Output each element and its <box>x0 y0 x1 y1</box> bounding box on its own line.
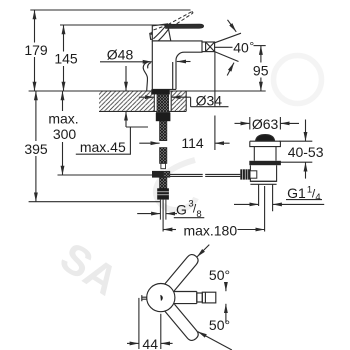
faucet centerline lower <box>162 200 164 232</box>
spout outlet <box>202 42 215 52</box>
plan spout neck <box>197 293 203 302</box>
44 extension lines <box>138 298 140 349</box>
drain tailpipe <box>259 184 273 211</box>
flow arrow in body <box>177 61 191 63</box>
spout axis line <box>215 46 233 48</box>
hose segment 1 <box>160 121 167 140</box>
threaded shank <box>157 94 169 112</box>
svg-text:4: 4 <box>315 192 320 203</box>
dimension max180 line <box>163 229 176 231</box>
G3/8 underline <box>174 217 205 219</box>
counter bottom line <box>99 110 186 112</box>
svg-text:Ø63: Ø63 <box>252 116 279 132</box>
plan view <box>142 255 216 341</box>
rod double line right <box>170 174 241 176</box>
svg-text:40: 40 <box>233 39 249 55</box>
counter hole right edge <box>170 91 172 111</box>
svg-text:300: 300 <box>53 126 77 142</box>
dimension 95 line <box>260 46 262 63</box>
drain knob stem <box>250 171 257 178</box>
counter hole left edge <box>153 91 155 111</box>
base gasket <box>151 89 170 94</box>
hose neck <box>161 163 166 168</box>
drain neck <box>254 147 276 161</box>
plan center mark <box>160 295 162 301</box>
drain locknut ring <box>249 161 281 165</box>
max45 label box <box>76 127 131 154</box>
plan lower handle arm <box>165 304 198 340</box>
watermark swirl <box>156 160 196 210</box>
svg-text:145: 145 <box>54 51 78 67</box>
svg-text:44: 44 <box>142 336 158 350</box>
svg-text:114: 114 <box>181 135 204 151</box>
40deg lower leader arrow <box>227 63 234 76</box>
svg-text:G: G <box>176 202 187 218</box>
svg-text:°: ° <box>249 39 254 53</box>
drain centerline <box>264 186 266 232</box>
Ø34 leader jog <box>191 97 229 107</box>
plan spout arm <box>174 292 197 304</box>
50deg upper spout arrow <box>225 284 227 291</box>
popup rod line left <box>58 174 153 176</box>
counter hatch left <box>99 92 154 111</box>
mounting nut <box>156 113 171 121</box>
svg-text:95: 95 <box>253 63 269 79</box>
spout tip extension line <box>214 52 216 107</box>
hose segment 2 <box>160 148 167 164</box>
G1 1/4 underline <box>286 199 322 201</box>
G3/8 connector nut <box>157 188 169 199</box>
drain knob <box>240 169 250 179</box>
svg-text:395: 395 <box>24 141 48 157</box>
handle base notch <box>150 33 153 40</box>
95 top tick <box>254 45 266 47</box>
reference line lever top (y=25) <box>60 24 167 26</box>
connector braid right <box>164 171 170 177</box>
dimension 395 line <box>35 91 37 141</box>
dimension 114 arrows <box>139 142 159 144</box>
50deg lower spout arrow <box>225 304 227 323</box>
Ø63 extension lines <box>249 117 251 130</box>
svg-text:179: 179 <box>24 42 48 58</box>
dimension G3/8 arrows <box>137 213 160 215</box>
svg-text:50°: 50° <box>209 267 230 283</box>
svg-text:8: 8 <box>196 209 201 220</box>
dimension G1 1/4 arrows <box>234 203 259 205</box>
hose segment 3 <box>160 178 167 189</box>
svg-text:max.45: max.45 <box>80 139 126 155</box>
counter top line <box>29 90 152 92</box>
drain body below ring <box>250 165 276 181</box>
plan upper handle arm <box>165 255 198 291</box>
plan knob <box>142 295 147 301</box>
svg-text:max.: max. <box>48 111 78 127</box>
spray lower ray <box>215 52 239 62</box>
drain flange <box>250 135 281 212</box>
dimension Ø63 arrows <box>235 122 250 124</box>
handle base <box>152 24 171 41</box>
watermark letters SA <box>52 233 127 304</box>
max45 leader <box>126 126 148 128</box>
svg-text:40-53: 40-53 <box>288 144 324 160</box>
svg-text:Ø34: Ø34 <box>196 92 223 108</box>
50deg lower leader <box>198 332 232 350</box>
dashed raised lever <box>151 12 193 36</box>
40-53 reference ticks <box>279 140 312 142</box>
body inner line <box>172 62 174 89</box>
dimension 44 <box>127 342 139 344</box>
reference line top (y=10) <box>30 9 190 11</box>
mounting washer line <box>156 111 170 113</box>
50deg upper leader <box>197 245 209 257</box>
svg-text:50°: 50° <box>209 317 230 333</box>
rod connector <box>152 171 164 178</box>
popup hook <box>143 62 147 91</box>
dimension Ø48 leader <box>100 61 152 63</box>
spray upper ray <box>215 33 241 43</box>
faucet body outline <box>152 41 202 90</box>
svg-text:max.180: max.180 <box>183 222 237 238</box>
drain body bottom double line <box>250 181 276 184</box>
drain dome cap <box>256 135 275 141</box>
svg-text:Ø48: Ø48 <box>107 46 134 62</box>
dimension 145 line <box>63 25 65 52</box>
dimension 179 line <box>34 10 36 43</box>
40deg upper leader arrow <box>228 20 237 32</box>
svg-text:G1: G1 <box>287 185 306 201</box>
dimension 40-53 <box>305 120 307 142</box>
lever bar <box>166 24 204 28</box>
plan body circle <box>147 284 175 312</box>
plan spout tip <box>202 292 216 303</box>
counter right edge <box>185 91 187 111</box>
watermark ring <box>274 56 322 104</box>
dimension max45 arrows <box>125 66 127 91</box>
dimension max300 line <box>62 91 64 111</box>
counter hatch right <box>171 92 186 111</box>
G3/8 thread lines <box>160 200 166 220</box>
395 bottom reference line <box>29 201 161 203</box>
dimension Ø34 arrows <box>139 96 155 98</box>
